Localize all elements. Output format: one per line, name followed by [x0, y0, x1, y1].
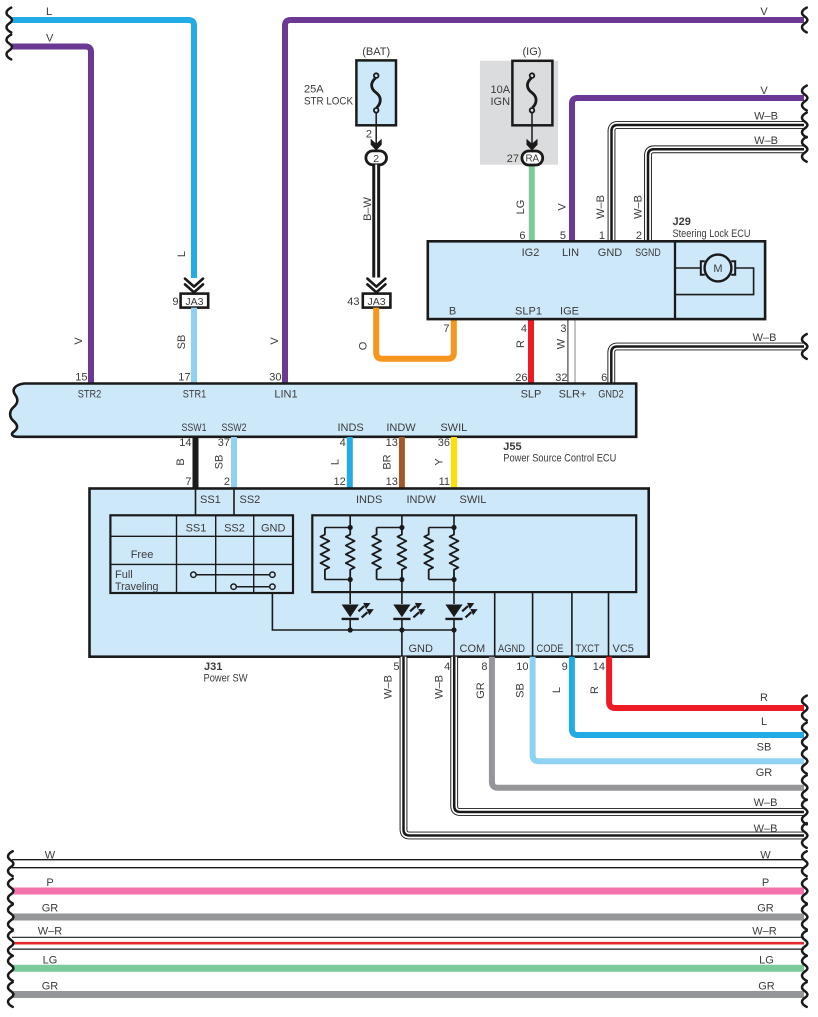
wire B-W from connector 2 to JA3	[372, 165, 380, 278]
svg-text:Free: Free	[131, 549, 154, 561]
fuse 10A IGN box	[512, 61, 552, 126]
svg-text:VC5: VC5	[613, 643, 634, 655]
squiggle GR2 left/right	[8, 982, 13, 1007]
svg-text:6: 6	[601, 372, 607, 384]
svg-text:V: V	[73, 337, 85, 345]
svg-text:GND2: GND2	[598, 389, 624, 401]
svg-text:IGN: IGN	[491, 96, 511, 108]
connector oval 2	[366, 151, 387, 165]
svg-text:INDS: INDS	[337, 422, 363, 434]
svg-text:IG2: IG2	[522, 247, 540, 259]
svg-text:M: M	[713, 263, 722, 275]
connector oval RA	[522, 151, 543, 165]
svg-text:INDS: INDS	[356, 494, 382, 506]
junction JA3 (9)	[181, 294, 209, 308]
wire fuse to connector 2	[375, 113, 377, 145]
svg-text:STR LOCK: STR LOCK	[304, 96, 354, 108]
wire GR2	[12, 991, 804, 998]
svg-text:J29: J29	[673, 216, 691, 228]
svg-text:J31: J31	[204, 661, 222, 673]
squiggle GR left/right	[8, 905, 13, 930]
svg-text:W–R: W–R	[38, 925, 63, 937]
LED INDS	[342, 603, 374, 619]
svg-text:26: 26	[515, 372, 527, 384]
svg-text:25A: 25A	[304, 84, 324, 96]
LED cathode drops	[350, 619, 454, 630]
svg-text:SB: SB	[214, 455, 226, 470]
svg-text:Traveling: Traveling	[115, 581, 159, 593]
svg-text:Power Source Control ECU: Power Source Control ECU	[503, 453, 616, 465]
svg-text:GR: GR	[758, 980, 775, 992]
svg-text:W–B: W–B	[433, 675, 445, 699]
svg-text:SB: SB	[515, 683, 527, 698]
svg-text:10A: 10A	[491, 84, 511, 96]
svg-text:SS2: SS2	[224, 523, 245, 535]
svg-text:14: 14	[593, 661, 605, 673]
svg-text:GND: GND	[261, 523, 286, 535]
svg-text:SB: SB	[176, 335, 188, 350]
svg-text:INDW: INDW	[386, 422, 416, 434]
resistor group INDW	[372, 515, 406, 604]
svg-text:AGND: AGND	[498, 643, 525, 655]
squiggle L left	[7, 8, 12, 33]
svg-text:8: 8	[481, 661, 487, 673]
resistor sub-box	[312, 515, 636, 592]
svg-text:32: 32	[555, 372, 567, 384]
wire Y SWIL	[451, 437, 457, 490]
LED common bottom line	[343, 629, 454, 631]
svg-text:LG: LG	[515, 200, 527, 215]
wire W-B from COM(4)	[454, 657, 804, 812]
wire L INDS	[347, 437, 353, 490]
svg-text:W–B: W–B	[753, 332, 777, 344]
squiggle P left/right	[8, 879, 13, 904]
svg-text:6: 6	[519, 230, 525, 242]
svg-text:LIN: LIN	[562, 247, 579, 259]
svg-text:L: L	[761, 716, 767, 728]
stub SS2	[233, 489, 235, 516]
svg-text:V: V	[557, 203, 569, 211]
svg-text:B: B	[175, 458, 187, 465]
svg-text:R: R	[589, 686, 601, 694]
svg-text:43: 43	[347, 296, 359, 308]
svg-text:7: 7	[443, 323, 449, 335]
wire SB SSW2	[231, 437, 237, 490]
wire LG	[12, 965, 804, 972]
svg-text:IGE: IGE	[560, 306, 579, 318]
svg-text:SGND: SGND	[635, 247, 661, 259]
svg-text:(IG): (IG)	[523, 46, 542, 58]
stub SS1	[195, 489, 197, 516]
svg-text:RA: RA	[525, 154, 539, 165]
squiggle V top right	[802, 8, 807, 33]
svg-text:5: 5	[393, 661, 399, 673]
svg-text:9: 9	[172, 296, 178, 308]
svg-text:SLP: SLP	[521, 389, 542, 401]
svg-text:12: 12	[334, 476, 346, 488]
svg-text:Y: Y	[434, 458, 446, 466]
svg-text:7: 7	[185, 476, 191, 488]
svg-text:P: P	[762, 877, 769, 889]
svg-text:L: L	[551, 687, 563, 693]
svg-text:JA3: JA3	[185, 296, 203, 308]
squiggle W left/right	[8, 851, 13, 876]
svg-text:L: L	[329, 459, 341, 465]
svg-text:W–B: W–B	[383, 675, 395, 699]
wire to AGND pin	[494, 592, 496, 657]
svg-text:5: 5	[560, 230, 566, 242]
svg-text:GR: GR	[475, 682, 487, 699]
wire fuse to connector RA	[531, 113, 533, 145]
wire R from VC5(14)	[609, 657, 804, 708]
svg-text:SSW1: SSW1	[182, 422, 207, 434]
svg-text:V: V	[46, 33, 54, 45]
squiggle R right	[802, 696, 807, 721]
wire V (purple) top-left	[11, 47, 91, 386]
svg-text:11: 11	[439, 476, 450, 488]
svg-text:Full: Full	[115, 569, 133, 581]
switch table	[110, 515, 293, 593]
wire to VC5 pin	[608, 592, 610, 657]
svg-text:14: 14	[179, 437, 191, 449]
squiggle W-B right 1	[802, 113, 807, 138]
svg-text:27: 27	[507, 153, 519, 165]
contact SS1-GND	[196, 574, 270, 576]
wire to GND pin	[401, 630, 403, 657]
svg-text:Power SW: Power SW	[204, 673, 249, 685]
svg-text:STR1: STR1	[183, 389, 207, 401]
svg-text:L: L	[176, 251, 188, 257]
svg-text:13: 13	[386, 476, 398, 488]
chevron arrow into JA3 (9)	[185, 279, 203, 293]
svg-text:V: V	[269, 337, 281, 345]
svg-text:17: 17	[178, 371, 190, 383]
wire to CODE pin	[532, 592, 534, 657]
wire SB from JA3 to J55 STR1	[191, 308, 197, 385]
wire W-R	[12, 937, 804, 950]
svg-text:4: 4	[340, 437, 346, 449]
svg-text:GR: GR	[757, 903, 774, 915]
svg-text:CODE: CODE	[537, 643, 564, 655]
svg-text:4: 4	[521, 323, 527, 335]
resistor group SWIL	[424, 515, 458, 604]
wire to COM pin	[453, 630, 455, 657]
svg-text:V: V	[760, 85, 768, 97]
wire W-B to J29 GND	[612, 125, 805, 243]
wire V (purple) to J29 LIN	[572, 98, 804, 243]
svg-text:W–B: W–B	[754, 797, 778, 809]
squiggle V left	[7, 35, 12, 60]
svg-text:GR: GR	[42, 903, 59, 915]
svg-text:W–B: W–B	[754, 135, 778, 147]
wire W-B from J55 GND2 to right	[611, 347, 804, 386]
squiggle W-B GND2 right	[802, 334, 807, 359]
gray highlight background for IG fuse	[480, 61, 558, 165]
svg-text:SWIL: SWIL	[460, 494, 487, 506]
wire V (purple) top-center to right	[285, 20, 804, 385]
svg-text:SB: SB	[757, 742, 772, 754]
svg-text:SLP1: SLP1	[515, 306, 542, 318]
squiggle W-B right 3	[802, 800, 807, 825]
svg-text:R: R	[760, 692, 768, 704]
svg-text:STR2: STR2	[78, 389, 102, 401]
svg-text:4: 4	[444, 661, 450, 673]
wire LG from RA to J29 IG2	[529, 158, 535, 243]
svg-text:L: L	[46, 6, 52, 18]
svg-text:1: 1	[599, 230, 605, 242]
svg-text:V: V	[760, 6, 768, 18]
wire BR INDW	[399, 437, 405, 490]
svg-text:W: W	[45, 850, 56, 862]
fuse 25A STR LOCK box	[356, 60, 396, 125]
wire L (cyan) top-left	[11, 20, 194, 278]
wire SB from CODE(10)	[533, 657, 804, 762]
wire O from JA3-43 to J29 B	[376, 308, 454, 359]
squiggle W-B right 2	[802, 137, 807, 162]
svg-text:2: 2	[224, 476, 230, 488]
svg-text:LG: LG	[759, 955, 774, 967]
squiggle GR right	[802, 775, 807, 800]
svg-text:BR: BR	[381, 454, 393, 469]
svg-text:W–B: W–B	[633, 195, 645, 219]
svg-text:B: B	[449, 306, 456, 318]
svg-text:W–B: W–B	[754, 111, 778, 123]
resistor group INDS	[321, 515, 355, 604]
svg-text:P: P	[46, 877, 53, 889]
svg-text:SSW2: SSW2	[222, 422, 247, 434]
svg-text:J55: J55	[503, 441, 521, 453]
LED INDW	[393, 603, 425, 619]
squiggle L right	[802, 723, 807, 748]
wire W	[12, 859, 804, 868]
svg-text:13: 13	[386, 437, 398, 449]
wire L from TXCT(9)	[572, 657, 804, 735]
contact SS2-GND	[236, 586, 270, 588]
squiggle W-R left/right	[8, 931, 13, 956]
svg-text:GND: GND	[409, 643, 434, 655]
svg-text:SS2: SS2	[240, 494, 261, 506]
svg-text:W–B: W–B	[595, 195, 607, 219]
wire B SSW1	[193, 437, 199, 490]
svg-text:W–B: W–B	[754, 823, 778, 835]
divider	[674, 241, 676, 319]
squiggle LG left/right	[8, 956, 13, 981]
svg-text:2: 2	[373, 153, 379, 165]
svg-text:GR: GR	[42, 980, 59, 992]
wire R from J29 SLP1 to J55 SLP	[528, 318, 534, 385]
svg-text:LIN1: LIN1	[274, 389, 297, 401]
svg-text:LG: LG	[43, 955, 58, 967]
wire GND column to LED common	[272, 593, 343, 630]
wire W-B to J29 SGND	[648, 149, 804, 243]
wire GR from AGND(8)	[492, 657, 804, 788]
wire W-B from GND(5)	[404, 657, 805, 836]
svg-text:INDW: INDW	[407, 494, 437, 506]
svg-text:SLR+: SLR+	[559, 389, 587, 401]
wire W from J29 IGE to J55 SLR+	[568, 318, 575, 385]
svg-text:10: 10	[516, 661, 528, 673]
svg-text:O: O	[358, 341, 370, 350]
svg-text:B–W: B–W	[362, 196, 374, 220]
LED SWIL	[445, 603, 477, 619]
wire P	[12, 888, 804, 895]
svg-text:36: 36	[438, 437, 450, 449]
svg-text:2: 2	[366, 129, 372, 141]
junction JA3 (43)	[363, 294, 391, 308]
svg-text:GND: GND	[598, 247, 623, 259]
svg-text:W: W	[556, 338, 568, 349]
svg-text:R: R	[515, 340, 527, 348]
motor M	[705, 255, 732, 282]
svg-text:W: W	[760, 850, 771, 862]
svg-text:W–R: W–R	[752, 925, 777, 937]
svg-text:(BAT): (BAT)	[362, 46, 390, 58]
svg-text:SWIL: SWIL	[440, 422, 467, 434]
svg-text:2: 2	[636, 230, 642, 242]
svg-text:30: 30	[269, 371, 281, 383]
svg-text:3: 3	[560, 323, 566, 335]
squiggle W-B right 4	[802, 823, 807, 848]
motor wires	[676, 268, 754, 295]
svg-text:37: 37	[218, 437, 230, 449]
svg-text:TXCT: TXCT	[576, 643, 600, 655]
wire to TXCT pin	[571, 592, 573, 657]
svg-text:SS1: SS1	[200, 494, 221, 506]
svg-text:SS1: SS1	[186, 523, 207, 535]
svg-text:COM: COM	[460, 643, 486, 655]
svg-text:JA3: JA3	[368, 296, 386, 308]
squiggle SB right	[802, 749, 807, 774]
svg-text:GR: GR	[756, 767, 773, 779]
wire GR	[12, 914, 804, 921]
squiggle V right	[802, 86, 807, 111]
svg-text:15: 15	[75, 371, 87, 383]
svg-text:Steering Lock ECU: Steering Lock ECU	[673, 228, 751, 240]
svg-text:9: 9	[562, 661, 568, 673]
